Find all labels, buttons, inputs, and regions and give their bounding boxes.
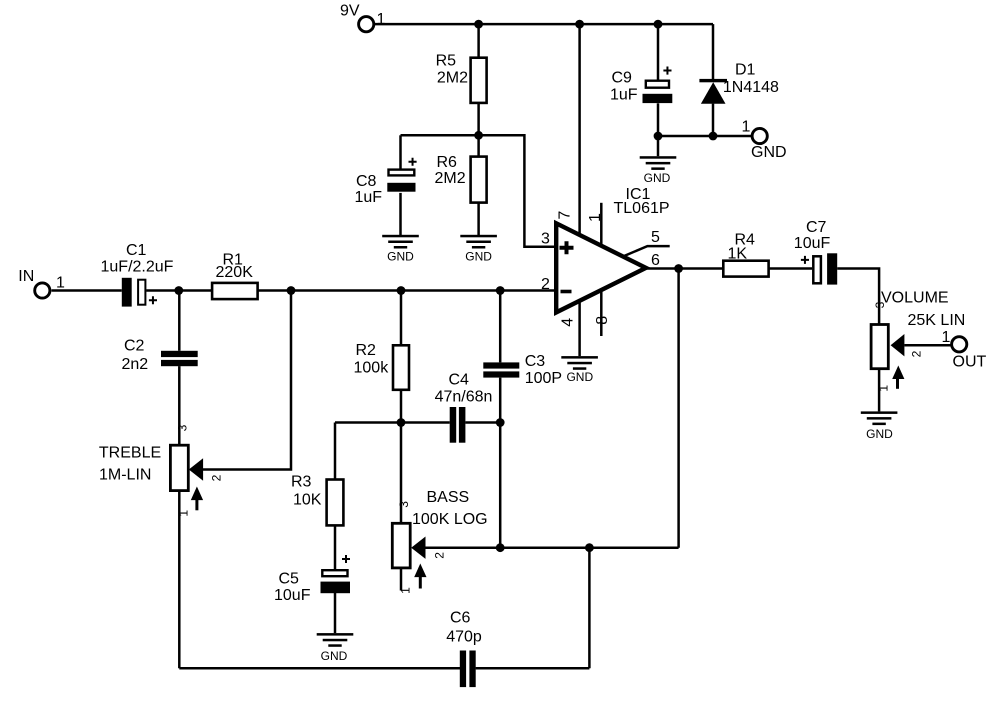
pin 1 of GND terminal [742, 119, 751, 136]
svg-text:3: 3 [541, 231, 550, 248]
label C9 [610, 70, 638, 104]
wire bass wiper row [425, 546, 679, 549]
svg-text:2: 2 [432, 552, 446, 559]
wire C3 top lead [499, 291, 502, 363]
svg-text:1: 1 [742, 119, 751, 136]
wire C6 to riser [476, 667, 590, 670]
op-amp U1 IC1 TL061P [556, 223, 646, 312]
wire C8 top to pin3 riser [401, 135, 557, 246]
svg-text:TL061P: TL061P [614, 200, 670, 217]
pin 3 label TREBLE [176, 424, 190, 431]
capacitor C2 [161, 351, 198, 366]
label D1 [723, 62, 779, 97]
wire op-amp pin 7 to rail [578, 24, 581, 235]
svg-text:C1: C1 [126, 242, 147, 259]
pin 1 label VOLUME [877, 385, 891, 392]
svg-text:VOLUME: VOLUME [881, 290, 949, 307]
svg-text:GND: GND [866, 427, 893, 441]
wire C3 bottom lead to bass row [499, 378, 502, 548]
wire op-amp output to R4 [646, 267, 723, 270]
svg-text:BASS: BASS [427, 489, 470, 506]
capacitor C3 [483, 362, 519, 377]
wire C5 to ground [334, 592, 337, 633]
svg-text:C7: C7 [806, 219, 827, 236]
capacitor C9 [643, 67, 673, 104]
wire op-amp pin 1 stub [600, 203, 603, 264]
svg-text:3: 3 [176, 424, 190, 431]
label GND under C8 [387, 250, 414, 264]
pin 3 label BASS [397, 501, 411, 508]
wire R2 bottom lead [400, 390, 403, 423]
label GND under pin 4 [566, 370, 593, 384]
svg-text:C6: C6 [450, 610, 471, 627]
svg-text:1N4148: 1N4148 [723, 79, 779, 96]
node R2 bottom feedback [397, 418, 406, 427]
svg-text:1: 1 [877, 385, 891, 392]
wire C6 riser [588, 548, 591, 669]
wire C9 ground lead [657, 136, 660, 156]
capacitor C7 [801, 253, 837, 284]
label C3 [525, 353, 562, 387]
ground under C8 [382, 235, 419, 249]
terminal 9V [359, 17, 374, 32]
wire C2 to treble pin 3 [178, 366, 181, 444]
wire R5 to R6 [477, 103, 480, 157]
node C3 bass row [496, 543, 505, 552]
label R3 [291, 474, 322, 509]
svg-text:470p: 470p [446, 629, 482, 646]
svg-text:1M-LIN: 1M-LIN [99, 467, 151, 484]
wire R3 riser [334, 423, 337, 480]
potentiometer BASS 100K LOG [392, 523, 426, 588]
svg-text:7: 7 [556, 211, 573, 220]
wire D1 bottom lead [712, 104, 715, 136]
node C3 top [496, 286, 505, 295]
svg-text:R3: R3 [291, 474, 312, 491]
wire R5 top lead [477, 24, 480, 58]
node rail R5 [474, 20, 483, 29]
svg-text:1uF/2.2uF: 1uF/2.2uF [101, 259, 174, 276]
ground under C5 [317, 633, 354, 647]
svg-text:2M2: 2M2 [437, 69, 468, 86]
terminal GND [752, 128, 767, 143]
svg-text:R5: R5 [436, 53, 457, 70]
svg-text:100K LOG: 100K LOG [412, 511, 488, 528]
svg-text:100P: 100P [525, 370, 562, 387]
wire bass pin 1 stub [400, 568, 403, 591]
svg-text:6: 6 [651, 252, 660, 269]
label GND under C9 [644, 171, 671, 185]
wire R6 to ground [477, 202, 480, 236]
label IN [18, 268, 34, 285]
node rail C9 [654, 20, 663, 29]
wire feedback row right of C4 [465, 421, 500, 424]
svg-text:C9: C9 [612, 70, 633, 87]
label R5 [436, 53, 469, 87]
pin 1 of OUT terminal [942, 329, 951, 346]
pin 3 label VOLUME [873, 301, 887, 308]
svg-text:GND: GND [387, 250, 414, 264]
pin 1 of IN terminal [56, 275, 65, 292]
pin 1 of 9V terminal [377, 11, 386, 28]
label R6 [435, 154, 466, 187]
svg-text:C2: C2 [124, 338, 145, 355]
wire treble pin 1 down [178, 491, 181, 669]
node C4 C3 [496, 418, 505, 427]
ground under op-amp pin 4 [561, 356, 598, 370]
svg-text:8: 8 [594, 316, 611, 325]
wire C8 bottom to ground [399, 193, 402, 236]
svg-text:10uF: 10uF [274, 587, 311, 604]
wire C9 top lead [657, 24, 660, 80]
wire bottom rail to C6 [179, 667, 460, 670]
pin 2 label BASS [432, 552, 446, 559]
capacitor C8 [387, 158, 416, 192]
wire R1 to op-amp pin 2 [258, 289, 557, 292]
svg-text:47n/68n: 47n/68n [435, 389, 493, 406]
label TREBLE [99, 445, 161, 484]
pin 6 label [651, 252, 660, 269]
svg-text:2: 2 [541, 276, 550, 293]
wire D1 top lead [712, 24, 715, 79]
label OUT [953, 354, 987, 371]
label BASS [412, 489, 488, 528]
svg-text:1: 1 [587, 213, 604, 222]
label C7 [794, 219, 831, 252]
terminal IN [35, 283, 50, 298]
label C5 [274, 571, 311, 605]
node op-amp output [674, 264, 683, 273]
svg-text:220K: 220K [216, 264, 254, 281]
svg-text:5: 5 [651, 229, 660, 246]
pin 4 label [559, 318, 576, 327]
resistor R2 [393, 345, 409, 390]
potentiometer TREBLE 1M-LIN [170, 445, 203, 510]
pin 3 label [541, 231, 550, 248]
pin 1 label op-amp [587, 213, 604, 222]
potentiometer VOLUME 25K LIN [871, 325, 904, 389]
svg-text:C8: C8 [356, 173, 377, 190]
pin 8 label [594, 316, 611, 325]
label C8 [355, 173, 383, 206]
svg-text:C5: C5 [279, 571, 300, 588]
capacitor C5 [321, 555, 351, 593]
svg-text:3: 3 [397, 501, 411, 508]
capacitor C4 [450, 407, 466, 443]
svg-text:2: 2 [909, 350, 923, 357]
wire treble wiper to node [203, 291, 292, 470]
node R5 R6 C8 [474, 131, 483, 140]
label C1 [101, 242, 174, 276]
terminal OUT [952, 337, 967, 352]
label C2 [122, 338, 149, 374]
label GND under C5 [321, 649, 348, 663]
svg-text:1: 1 [377, 11, 386, 28]
capacitor C1 [122, 278, 157, 307]
svg-text:2n2: 2n2 [122, 356, 149, 373]
label R4 [728, 232, 756, 263]
wire R2 top lead [400, 291, 403, 346]
label R1 [216, 252, 254, 282]
wire C1 to R1 [146, 289, 212, 292]
pin 5 label [651, 229, 660, 246]
svg-text:C4: C4 [449, 371, 470, 388]
diode D1 [699, 79, 727, 104]
svg-text:4: 4 [559, 318, 576, 327]
node C9 ground [654, 132, 663, 141]
node treble wiper riser [287, 286, 296, 295]
resistor R5 [471, 58, 487, 103]
svg-text:C3: C3 [525, 353, 546, 370]
svg-text:100k: 100k [354, 359, 390, 376]
node R2 top [397, 286, 406, 295]
svg-text:9V: 9V [340, 3, 360, 20]
svg-text:2M2: 2M2 [435, 170, 466, 187]
wire volume pin 1 to ground [878, 369, 881, 412]
label VOLUME [881, 290, 965, 330]
capacitor C6 [460, 651, 476, 688]
label 9V [340, 3, 360, 20]
svg-text:R2: R2 [356, 342, 377, 359]
svg-text:GND: GND [321, 649, 348, 663]
wire op-amp pin 5 stub [624, 246, 670, 256]
label GND under VOLUME [866, 427, 893, 441]
wire top 9V rail [373, 23, 713, 26]
wire bass pin 3 lead [400, 423, 403, 524]
svg-text:25K LIN: 25K LIN [908, 312, 966, 329]
svg-text:OUT: OUT [953, 354, 987, 371]
svg-text:10K: 10K [293, 492, 322, 509]
svg-text:1: 1 [56, 275, 65, 292]
ground under VOLUME [861, 411, 898, 425]
wire feedback row left of C4 [335, 421, 450, 424]
label IC1 TL061P [614, 186, 670, 217]
pin 2 label [541, 276, 550, 293]
resistor R4 [723, 261, 768, 277]
wire op-amp pin 4 to ground [578, 301, 581, 356]
ground under R6 [460, 235, 497, 249]
svg-text:GND: GND [465, 250, 492, 264]
resistor R1 [212, 283, 258, 299]
label C6 [446, 610, 482, 646]
svg-text:D1: D1 [735, 62, 756, 79]
wire R3 to C5 [334, 525, 337, 570]
pin 7 label [556, 211, 573, 220]
svg-text:3: 3 [873, 301, 887, 308]
svg-text:1: 1 [942, 329, 951, 346]
wire C9 bottom lead [657, 103, 660, 136]
resistor R3 [327, 480, 344, 526]
svg-text:GND: GND [566, 370, 593, 384]
label GND terminal [751, 144, 787, 161]
wire ground row to GND terminal [658, 135, 753, 138]
svg-text:GND: GND [644, 171, 671, 185]
label R2 [354, 342, 390, 377]
ground under C9 [640, 156, 677, 170]
svg-text:2: 2 [210, 474, 224, 481]
wire R4 to C7 [769, 267, 812, 270]
wire IN to C1 [52, 289, 122, 292]
node C2 input [174, 286, 183, 295]
svg-text:1K: 1K [728, 245, 748, 262]
node rail pin7 [575, 20, 584, 29]
node D1 ground [709, 132, 718, 141]
wire C7 to volume pin 3 [837, 269, 879, 325]
pin 2 label TREBLE [210, 474, 224, 481]
svg-text:1: 1 [399, 587, 413, 594]
svg-text:1uF: 1uF [610, 87, 638, 104]
wire output riser [677, 269, 680, 548]
svg-text:1uF: 1uF [355, 189, 383, 206]
pin 1 label TREBLE [176, 510, 190, 517]
svg-text:GND: GND [751, 144, 787, 161]
svg-text:TREBLE: TREBLE [99, 445, 161, 462]
svg-text:10uF: 10uF [794, 235, 831, 252]
pin 1 label BASS [399, 587, 413, 594]
svg-text:R6: R6 [437, 154, 458, 171]
svg-text:1: 1 [176, 510, 190, 517]
resistor R6 [471, 157, 487, 203]
wire C2 top lead [178, 291, 181, 351]
pin 2 label VOLUME [909, 350, 923, 357]
wire C8 top lead [399, 135, 402, 169]
node C6 bass row [585, 543, 594, 552]
label GND under R6 [465, 250, 492, 264]
wire volume wiper to OUT [904, 344, 951, 347]
wire op-amp pin 8 stub [600, 291, 603, 336]
svg-text:IN: IN [18, 268, 34, 285]
label C4 [435, 371, 493, 405]
